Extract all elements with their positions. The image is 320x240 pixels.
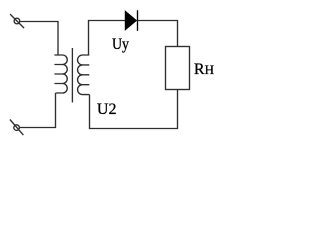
transformer T1 secondary winding: [78, 55, 90, 95]
input terminal X2 (bottom left): [10, 120, 24, 136]
wire resistor bottom to secondary bottom: [90, 90, 178, 129]
resistor Rn body: [166, 47, 190, 90]
label Uy (voltage across diode): [112, 36, 129, 54]
diode VD (anode triangle): [125, 11, 136, 30]
wire secondary top to diode anode: [89, 21, 126, 56]
input terminal X1 (top left): [10, 14, 24, 28]
diode VD cathode bar: [137, 10, 139, 31]
transformer T1 primary winding: [54, 55, 67, 93]
wire from X2 to primary bottom: [19, 93, 55, 128]
label U2 (secondary voltage): [97, 101, 117, 119]
label Rn (load resistor): [194, 61, 214, 79]
transformer T1 core: [71, 48, 73, 103]
wire from X1 to primary top: [20, 22, 58, 56]
wire diode cathode to resistor top: [138, 21, 178, 47]
